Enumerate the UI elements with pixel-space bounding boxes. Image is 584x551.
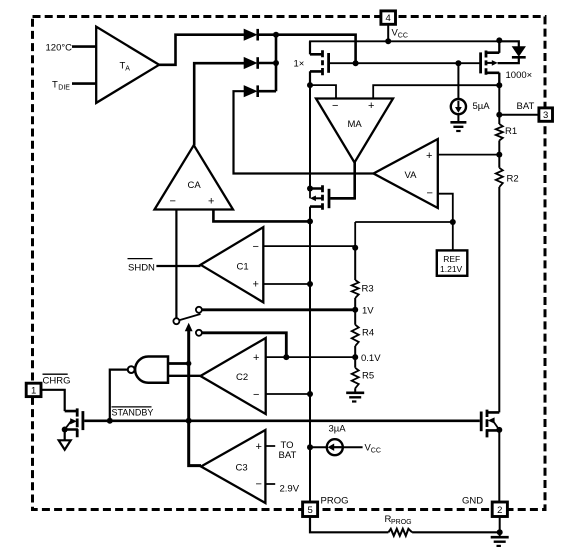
svg-text:R4: R4 [362,328,374,339]
svg-text:R5: R5 [362,371,374,382]
svg-text:A: A [125,66,130,73]
svg-text:5: 5 [307,505,312,516]
svg-text:+: + [253,352,259,364]
svg-text:+: + [208,196,214,208]
svg-text:4: 4 [386,13,391,24]
svg-text:1000×: 1000× [506,70,533,81]
svg-text:VA: VA [405,170,418,181]
svg-text:1: 1 [31,385,36,396]
svg-text:STANDBY: STANDBY [112,408,154,418]
svg-text:120°C: 120°C [46,42,73,53]
svg-text:3µA: 3µA [329,424,347,435]
svg-text:CC: CC [371,448,381,455]
svg-text:CA: CA [188,180,202,191]
svg-text:1V: 1V [362,306,374,317]
svg-text:−: − [256,479,262,491]
svg-text:−: − [170,196,176,208]
svg-text:T: T [52,80,58,91]
svg-text:CC: CC [398,33,408,40]
svg-text:1×: 1× [294,59,305,70]
svg-text:R3: R3 [362,284,374,295]
svg-text:GND: GND [462,495,483,506]
svg-text:C2: C2 [236,372,248,383]
svg-text:1.21V: 1.21V [440,264,463,274]
svg-text:REF: REF [443,254,460,264]
svg-text:+: + [368,100,374,112]
svg-text:BAT: BAT [279,450,297,461]
svg-text:5µA: 5µA [473,101,491,112]
svg-text:PROG: PROG [321,495,349,506]
svg-text:2: 2 [497,505,502,516]
svg-text:3: 3 [543,110,548,121]
svg-text:2.9V: 2.9V [280,484,300,495]
svg-text:C1: C1 [237,261,249,272]
svg-text:SHDN: SHDN [128,262,155,273]
svg-text:−: − [427,188,433,200]
svg-text:−: − [253,389,259,401]
svg-text:MA: MA [348,119,363,130]
svg-text:+: + [256,441,262,453]
svg-text:R2: R2 [507,174,519,185]
svg-text:−: − [253,241,259,253]
svg-text:0.1V: 0.1V [361,353,381,364]
svg-text:PROG: PROG [391,519,412,526]
svg-text:+: + [426,150,432,162]
svg-text:BAT: BAT [517,101,535,112]
svg-text:R1: R1 [505,126,517,137]
svg-text:DIE: DIE [58,85,70,92]
svg-text:CHRG: CHRG [43,376,71,387]
svg-text:+: + [253,279,259,291]
svg-text:C3: C3 [236,463,248,474]
svg-text:−: − [332,100,338,112]
